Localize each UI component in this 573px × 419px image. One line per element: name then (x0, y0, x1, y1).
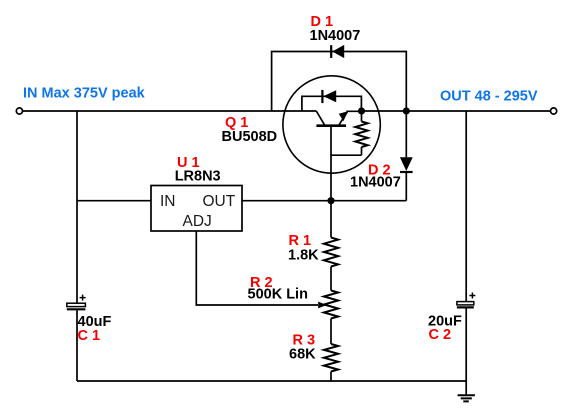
diode internal damper cathode bar (321, 90, 323, 103)
capacitor C1 plus sign (80, 295, 86, 301)
wire ADJ to R2 wiper (196, 231, 318, 305)
IC U1 box (151, 186, 242, 232)
output terminal (551, 108, 557, 114)
resistor R3 stub wires (330, 319, 332, 382)
diode D1 triangle (332, 45, 344, 58)
potentiometer R2 wiper arrowhead (318, 302, 326, 309)
svg-text:LR8N3: LR8N3 (175, 169, 221, 185)
wire input rail left segment (23, 110, 317, 112)
capacitor C2 plus sign (469, 293, 475, 299)
capacitor C1 bottom plate (67, 308, 86, 310)
diode D1 cathode bar (330, 45, 332, 58)
svg-text:C 1: C 1 (78, 328, 101, 344)
resistor R3 zigzag (324, 344, 338, 372)
diode D2 triangle (400, 157, 413, 171)
svg-text:500K Lin: 500K Lin (248, 287, 308, 303)
resistor internal B-E stub wire (331, 111, 362, 155)
wire left vertical to C1 (76, 111, 78, 381)
svg-text:OUT: OUT (203, 193, 236, 210)
svg-text:1N4007: 1N4007 (310, 28, 361, 44)
diode D2 cathode wire (405, 172, 407, 201)
wire U1 OUT to D2 (242, 200, 406, 202)
junction node base-OUT-R1 (327, 197, 334, 204)
wire output rail right segment (362, 110, 551, 112)
svg-text:OUT 48 - 295V: OUT 48 - 295V (440, 89, 538, 105)
diode D1 loop wire (272, 52, 407, 112)
transistor Q1 base lead (330, 126, 332, 201)
transistor Q1 base bar (316, 124, 346, 127)
capacitor C1 top plate (67, 303, 86, 306)
transistor Q1 emitter slant (339, 111, 359, 125)
svg-text:BU508D: BU508D (222, 129, 278, 145)
resistor R1 stub wires (330, 201, 332, 291)
resistor internal B-E zigzag (355, 122, 367, 148)
svg-text:C 2: C 2 (429, 327, 452, 343)
junction node D1-D2-rail (403, 107, 410, 114)
resistor R2 zigzag (324, 291, 338, 319)
input terminal (16, 108, 22, 114)
capacitor C2 bottom plate (457, 306, 474, 308)
svg-text:IN Max 375V peak: IN Max 375V peak (23, 86, 146, 102)
resistor R1 zigzag (324, 238, 338, 267)
svg-text:1N4007: 1N4007 (350, 174, 401, 190)
svg-text:68K: 68K (289, 347, 316, 363)
capacitor C2 top plate (457, 302, 474, 305)
diode D2 cathode bar (400, 171, 413, 173)
junction node emitter-rail (358, 107, 365, 114)
wire C2 vertical (465, 111, 467, 395)
transistor Q1 circle (283, 76, 380, 173)
transistor Q1 emitter arrowhead (339, 111, 348, 121)
wire bottom rail (77, 380, 466, 382)
svg-text:IN: IN (160, 193, 176, 210)
diode D2 anode wire (405, 111, 407, 157)
svg-text:ADJ: ADJ (183, 213, 212, 230)
ground symbol (458, 395, 475, 401)
svg-text:1.8K: 1.8K (288, 248, 319, 264)
diode internal damper loop wire (302, 96, 362, 111)
transistor Q1 collector slant (316, 111, 324, 125)
wire U1 IN from left rail (77, 200, 151, 202)
diode internal damper triangle (323, 90, 336, 102)
